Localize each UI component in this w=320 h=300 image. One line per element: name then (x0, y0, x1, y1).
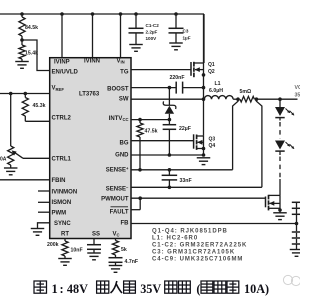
svg-text:15.4k: 15.4k (25, 51, 38, 57)
svg-text:200k: 200k (47, 242, 59, 248)
svg-text:IVINN: IVINN (84, 58, 100, 64)
svg-text:CTRL1: CTRL1 (52, 156, 72, 162)
svg-text:35V: 35V (140, 282, 161, 296)
svg-text:BOOST: BOOST (107, 87, 129, 93)
svg-text:GND: GND (115, 153, 129, 159)
svg-text:C1-C2: GRM32ER72A225K: C1-C2: GRM32ER72A225K (152, 243, 247, 249)
svg-text:LT3763: LT3763 (79, 92, 100, 98)
svg-text:Q4: Q4 (209, 143, 216, 149)
svg-text:PWMOUT: PWMOUT (101, 197, 129, 203)
svg-text:84.5k: 84.5k (25, 25, 38, 31)
svg-text:6.0µH: 6.0µH (209, 88, 223, 94)
svg-text:FBIN: FBIN (52, 178, 66, 184)
svg-text:SENSE−: SENSE− (106, 185, 129, 193)
svg-text:220nF: 220nF (170, 75, 185, 81)
svg-text:0A: 0A (0, 157, 7, 163)
svg-text:L1: L1 (215, 81, 221, 87)
svg-text:Q1: Q1 (208, 62, 215, 68)
svg-text:CTRL2: CTRL2 (52, 115, 72, 121)
svg-text:Q1-Q4: RJK0851DPB: Q1-Q4: RJK0851DPB (152, 229, 228, 235)
svg-text:5k: 5k (121, 247, 127, 253)
svg-text:FAULT: FAULT (110, 209, 129, 215)
svg-text:EN/UVLD: EN/UVLD (52, 69, 79, 75)
svg-text:10nF: 10nF (71, 247, 83, 253)
svg-text:Q3: Q3 (209, 137, 216, 143)
svg-text:SS: SS (92, 231, 100, 237)
svg-text:VC: VC (113, 231, 120, 237)
svg-text:10A): 10A) (244, 282, 269, 296)
svg-text:48V: 48V (67, 282, 88, 296)
svg-text:1: 1 (52, 282, 58, 296)
svg-text:VO: VO (295, 85, 301, 91)
svg-text:L1: HC2-6R0: L1: HC2-6R0 (152, 236, 198, 242)
svg-text:INTVCC: INTVCC (109, 116, 129, 122)
svg-text:C3: GRM31CR72A105K: C3: GRM31CR72A105K (152, 250, 235, 256)
svg-text:33nF: 33nF (180, 178, 192, 184)
svg-text:22µF: 22µF (179, 126, 191, 132)
svg-text:C3: C3 (183, 29, 189, 34)
svg-text:4.7nF: 4.7nF (125, 259, 139, 265)
svg-text:C1-C2: C1-C2 (146, 23, 160, 28)
svg-text:35: 35 (295, 93, 301, 99)
svg-text:ISMON: ISMON (52, 200, 72, 206)
svg-text:(: ( (196, 282, 200, 296)
svg-text:IVINP: IVINP (54, 59, 70, 65)
svg-text:BG: BG (120, 140, 129, 146)
svg-text:2.2µF: 2.2µF (146, 30, 158, 35)
svg-text:SYNC: SYNC (54, 221, 71, 227)
svg-text:1µF: 1µF (183, 36, 191, 41)
svg-text:TG: TG (120, 69, 129, 75)
svg-text:SW: SW (119, 96, 129, 102)
svg-text:RT: RT (61, 231, 69, 237)
svg-text::: : (60, 282, 64, 296)
svg-text:VREF: VREF (52, 86, 65, 92)
svg-text:FB: FB (121, 220, 130, 226)
svg-text:SENSE+: SENSE+ (106, 166, 129, 174)
svg-text:5mΩ: 5mΩ (240, 89, 252, 95)
svg-text:PWM: PWM (52, 210, 67, 216)
svg-text:VIN: VIN (117, 58, 125, 64)
svg-text:47.5k: 47.5k (145, 129, 158, 135)
svg-text:100V: 100V (146, 36, 158, 41)
svg-text:45.3k: 45.3k (33, 103, 46, 109)
svg-text:Q2: Q2 (208, 69, 215, 75)
svg-text:IVINMON: IVINMON (52, 189, 78, 195)
svg-text:C4-C9: UMK325C7106MM: C4-C9: UMK325C7106MM (152, 257, 243, 263)
